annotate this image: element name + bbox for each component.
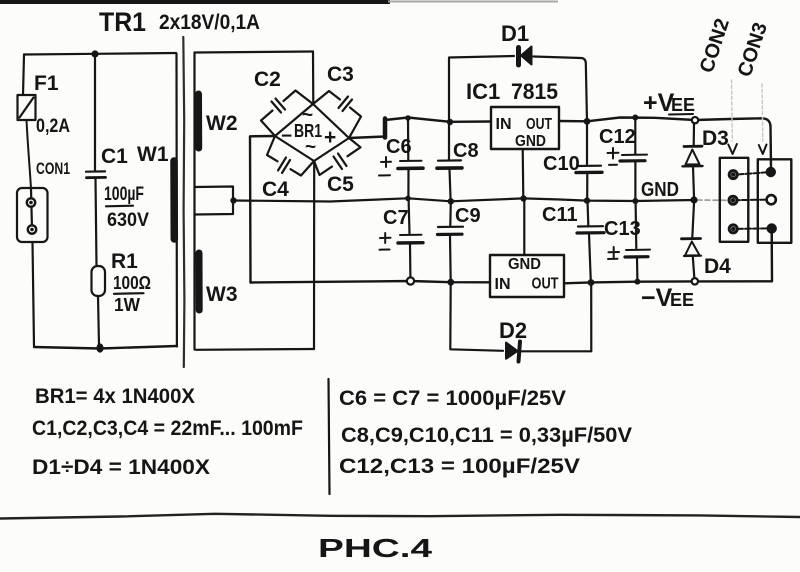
wire bottom rail [251,232,773,283]
svg-text:C8: C8 [453,140,479,162]
wire center tap [195,187,234,215]
wire connector row3 [737,227,768,230]
capacitor C8 [437,122,479,200]
diode D1 [449,21,587,122]
svg-text:C9: C9 [455,205,481,227]
svg-text:GND: GND [515,133,546,150]
notes right column [339,387,632,478]
capacitor C13 [604,202,650,280]
svg-text:−: − [281,126,292,147]
capacitor C4 [262,136,314,201]
svg-text:CON1: CON1 [36,159,70,178]
capacitor C9 [438,201,481,281]
svg-text:D3: D3 [702,127,729,150]
svg-text:C10: C10 [543,153,580,175]
node junction primary bottom [96,343,103,352]
value label R1 100ohm/1W [113,273,151,315]
wire mid GND rail [234,198,771,201]
svg-text:~: ~ [305,137,316,158]
wire fuse to CON1 [27,120,32,189]
connector CON1 [17,159,70,242]
svg-text:F1: F1 [34,72,59,95]
divider line [329,379,330,494]
svg-text:C2: C2 [254,68,281,91]
diode D4 [682,203,732,278]
svg-text:0,2A: 0,2A [36,116,70,137]
value label C1 100uF/630V [104,184,149,231]
svg-text:OUT: OUT [526,116,552,133]
svg-text:EE: EE [671,95,695,115]
svg-text:630V: 630V [107,210,149,231]
transformer primary winding W1 [137,54,177,347]
svg-text:C5: C5 [327,173,354,196]
capacitor C5 [314,138,361,196]
IC2 7915 regulator [490,255,564,297]
wire primary bottom [34,346,177,349]
title PHC-4 [318,533,433,563]
resistor R1 [92,250,139,346]
svg-text:W2: W2 [206,112,238,135]
svg-text:D4: D4 [704,255,731,278]
svg-text:100µF: 100µF [104,184,144,205]
capacitor C10 [543,121,602,199]
svg-text:D1: D1 [501,21,529,46]
capacitor C3 [313,63,361,138]
svg-text:1W: 1W [114,295,140,315]
notes left column [32,385,303,479]
svg-text:C12,C13 = 100µF/25V: C12,C13 = 100µF/25V [339,455,580,478]
wire IC2 GND pin [523,201,525,256]
svg-text:7815: 7815 [511,79,558,104]
svg-text:IC1: IC1 [466,79,500,104]
svg-text:PHC.4: PHC.4 [318,533,433,563]
svg-text:C13: C13 [604,218,641,240]
svg-text:−V: −V [641,284,673,312]
svg-text:C7: C7 [383,207,409,229]
node junction primary top [91,50,98,57]
IC1 7815 regulator [466,79,559,150]
fuse F1 [18,72,71,137]
svg-text:W1: W1 [137,143,169,166]
svg-text:C6: C6 [386,136,412,158]
connector CON2 [720,144,749,242]
title rule [0,514,800,519]
wire IC1 GND pin [522,149,525,197]
label CON3 [734,20,772,80]
svg-text:+V: +V [643,89,675,117]
svg-text:GND: GND [641,179,679,201]
leader line CON3 [761,84,764,141]
capacitor C2 [254,68,313,136]
svg-text:C11: C11 [542,204,578,226]
svg-text:D1÷D4 = 1N400X: D1÷D4 = 1N400X [32,456,210,479]
svg-text:C8,C9,C10,C11 = 0,33µF/50V: C8,C9,C10,C11 = 0,33µF/50V [341,424,632,447]
node mid rail junctions [405,195,697,204]
capacitor C12 [599,118,647,200]
svg-text:C3: C3 [327,63,354,86]
svg-text:C4: C4 [262,178,289,201]
svg-text:W3: W3 [206,283,238,306]
svg-text:TR1: TR1 [99,7,146,37]
leader line CON2 [731,80,734,141]
svg-text:D2: D2 [499,318,527,343]
node bottom rail junctions [407,277,698,286]
svg-text:2x18V/0,1A: 2x18V/0,1A [159,11,260,34]
diode D2 [450,283,591,362]
svg-text:IN: IN [495,276,511,293]
svg-text:C12: C12 [599,126,636,148]
capacitor C7 [380,200,424,278]
capacitor C11 [542,201,604,282]
svg-text:OUT: OUT [532,276,559,293]
wire primary left upper [23,55,24,96]
wire CON3 bottom pin to -VEE rail [771,233,773,243]
wire top rail [385,118,771,169]
svg-text:GND: GND [508,256,541,273]
node GND label [641,179,679,201]
transformer TR1 label [99,7,260,37]
diode D3 [683,123,729,197]
wire primary top [24,53,176,55]
transformer winding W3 [199,253,238,310]
svg-text:C6 = C7 = 1000µF/25V: C6 = C7 = 1000µF/25V [339,387,566,410]
svg-text:C1: C1 [101,145,128,168]
capacitor C1 [86,54,128,266]
transformer winding W2 [199,94,238,148]
wire bridge minus to bottom rail [250,136,275,283]
node center tap junction [230,197,236,203]
bridge BR1 [275,104,349,161]
svg-text:+: + [324,126,336,149]
svg-text:100Ω: 100Ω [113,273,151,293]
svg-text:BR1= 4x 1N400X: BR1= 4x 1N400X [35,385,195,408]
svg-text:EE: EE [670,290,694,310]
wire connector row1 [738,172,768,174]
connector CON3 [758,145,792,243]
wire CON1 to bottom [33,242,35,346]
node +VEE label [643,89,695,117]
svg-text:R1: R1 [111,250,138,273]
node -VEE label [641,284,694,312]
wire secondary box [195,52,315,350]
svg-text:C1,C2,C3,C4 = 22mF... 100mF: C1,C2,C3,C4 = 22mF... 100mF [32,417,303,440]
transformer core [183,37,184,367]
node top rail junctions [405,115,698,126]
capacitor C6 [379,118,423,198]
label CON2 [696,16,734,76]
svg-text:IN: IN [496,116,512,133]
wire bridge plus to top rail [349,119,385,139]
